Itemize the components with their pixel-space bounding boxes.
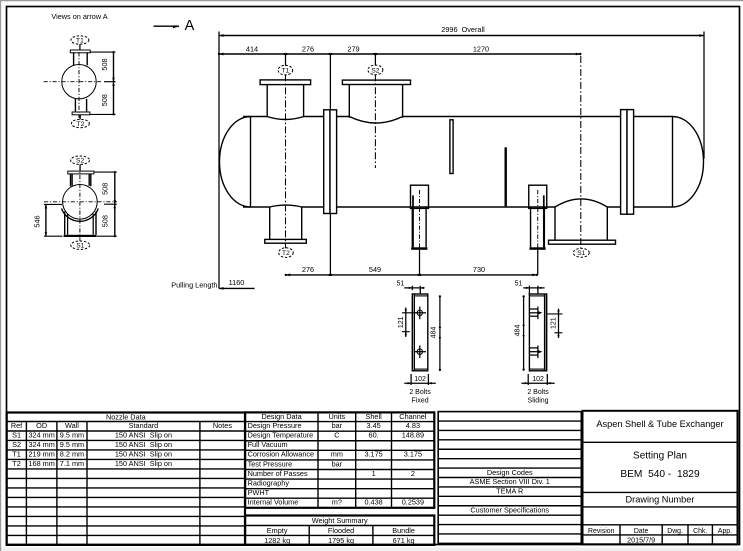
svg-text:ASME Section VIII Div. 1: ASME Section VIII Div. 1 [470, 477, 550, 486]
svg-text:276: 276 [302, 265, 314, 274]
svg-text:T2: T2 [12, 459, 21, 468]
svg-text:150 ANSI Slip on: 150 ANSI Slip on [115, 440, 172, 449]
svg-text:324 mm: 324 mm [28, 440, 54, 449]
svg-text:Date: Date [634, 528, 649, 535]
svg-text:Units: Units [329, 412, 346, 421]
svg-text:Sliding: Sliding [528, 398, 549, 405]
svg-text:2 Bolts: 2 Bolts [409, 389, 431, 396]
svg-text:484: 484 [514, 325, 521, 337]
svg-text:Radiography: Radiography [248, 478, 290, 487]
svg-text:276: 276 [302, 44, 314, 53]
svg-text:S2: S2 [12, 440, 21, 449]
svg-text:bar: bar [332, 459, 343, 468]
svg-text:150 ANSI Slip on: 150 ANSI Slip on [115, 430, 172, 439]
svg-text:9.5 mm: 9.5 mm [60, 430, 84, 439]
svg-text:Nozzle Data: Nozzle Data [106, 412, 147, 421]
svg-text:Design Pressure: Design Pressure [248, 421, 302, 430]
svg-text:2 Bolts: 2 Bolts [527, 389, 549, 396]
svg-text:S2: S2 [76, 158, 84, 165]
svg-text:1282 kg: 1282 kg [264, 536, 290, 545]
svg-text:Views on arrow A: Views on arrow A [51, 12, 107, 21]
svg-text:Number of Passes: Number of Passes [248, 469, 308, 478]
svg-text:3.45: 3.45 [366, 421, 380, 430]
svg-text:2015/7/9: 2015/7/9 [627, 535, 655, 544]
svg-text:Chk.: Chk. [693, 528, 707, 535]
svg-text:T1: T1 [12, 449, 21, 458]
svg-text:546: 546 [33, 215, 42, 227]
svg-text:121: 121 [398, 316, 405, 328]
svg-text:Shell: Shell [365, 412, 382, 421]
svg-text:App.: App. [718, 528, 732, 535]
svg-text:Wall: Wall [65, 421, 79, 430]
svg-text:Flooded: Flooded [328, 526, 354, 535]
svg-text:Corrosion Allowance: Corrosion Allowance [248, 450, 315, 459]
svg-text:OD: OD [36, 421, 47, 430]
svg-text:549: 549 [369, 265, 381, 274]
svg-text:Fixed: Fixed [411, 398, 428, 405]
svg-text:148.89: 148.89 [402, 431, 424, 440]
svg-text:1160: 1160 [229, 278, 245, 287]
svg-text:150 ANSI Slip on: 150 ANSI Slip on [115, 449, 172, 458]
svg-text:1: 1 [372, 469, 376, 478]
svg-text:Revision: Revision [588, 528, 615, 535]
svg-text:TEMA R: TEMA R [496, 487, 523, 496]
svg-text:4.83: 4.83 [406, 421, 420, 430]
svg-text:508: 508 [100, 183, 109, 195]
svg-text:T2: T2 [77, 121, 85, 128]
svg-text:219 mm: 219 mm [28, 449, 54, 458]
svg-text:PWHT: PWHT [248, 488, 270, 497]
svg-text:0.2539: 0.2539 [402, 498, 424, 507]
svg-text:T2: T2 [282, 250, 290, 257]
svg-text:Drawing Number: Drawing Number [626, 495, 695, 505]
svg-text:508: 508 [100, 215, 109, 227]
svg-text:Weight Summary: Weight Summary [312, 516, 368, 525]
svg-text:484: 484 [430, 327, 437, 339]
svg-text:7.1 mm: 7.1 mm [60, 459, 84, 468]
svg-text:C: C [334, 431, 339, 440]
svg-text:Dwg.: Dwg. [667, 528, 683, 535]
svg-text:Customer Specifications: Customer Specifications [470, 505, 549, 514]
svg-text:A: A [185, 18, 195, 34]
svg-text:T1: T1 [282, 68, 290, 75]
svg-text:Full Vacuum: Full Vacuum [248, 440, 288, 449]
svg-text:Standard: Standard [129, 421, 159, 430]
svg-text:508: 508 [100, 58, 109, 70]
svg-text:324 mm: 324 mm [28, 430, 54, 439]
svg-text:3.175: 3.175 [404, 450, 422, 459]
svg-text:102: 102 [532, 376, 544, 383]
svg-text:S1: S1 [76, 243, 84, 250]
svg-text:Notes: Notes [213, 421, 232, 430]
svg-text:S1: S1 [12, 430, 21, 439]
svg-text:730: 730 [473, 265, 485, 274]
svg-text:Design Data: Design Data [261, 412, 302, 421]
svg-text:8.2 mm: 8.2 mm [60, 449, 84, 458]
svg-text:3.175: 3.175 [364, 450, 382, 459]
svg-text:Pulling Length: Pulling Length [171, 281, 217, 290]
svg-text:bar: bar [332, 421, 343, 430]
svg-text:Bundle: Bundle [392, 526, 415, 535]
svg-text:102: 102 [414, 376, 426, 383]
svg-text:BEM 540 - 1829: BEM 540 - 1829 [620, 469, 700, 480]
svg-text:51: 51 [515, 280, 523, 287]
svg-text:2: 2 [411, 469, 415, 478]
svg-text:Channel: Channel [399, 412, 427, 421]
svg-text:121: 121 [551, 317, 558, 329]
svg-text:60.: 60. [369, 431, 379, 440]
svg-text:S2: S2 [371, 67, 379, 74]
svg-text:51: 51 [397, 281, 405, 288]
svg-text:Design Codes: Design Codes [487, 468, 533, 477]
svg-text:168 mm: 168 mm [28, 459, 54, 468]
svg-text:508: 508 [100, 94, 109, 106]
svg-text:Empty: Empty [267, 526, 288, 535]
svg-text:Aspen Shell & Tube Exchanger: Aspen Shell & Tube Exchanger [596, 419, 723, 429]
svg-text:2996 Overall: 2996 Overall [441, 25, 485, 34]
svg-text:9.5 mm: 9.5 mm [60, 440, 84, 449]
svg-text:0.438: 0.438 [364, 498, 382, 507]
svg-text:Setting Plan: Setting Plan [633, 451, 687, 462]
svg-text:Design Temperature: Design Temperature [248, 431, 314, 440]
svg-text:Internal Volume: Internal Volume [248, 498, 299, 507]
svg-text:Test Pressure: Test Pressure [248, 459, 293, 468]
svg-text:671 kg: 671 kg [393, 536, 415, 545]
svg-text:S1: S1 [577, 250, 585, 257]
svg-text:Ref: Ref [11, 421, 23, 430]
svg-text:1270: 1270 [473, 44, 489, 53]
svg-text:T1: T1 [76, 37, 84, 44]
svg-text:414: 414 [246, 44, 258, 53]
svg-text:150 ANSI Slip on: 150 ANSI Slip on [115, 459, 172, 468]
svg-text:mm: mm [331, 450, 343, 459]
svg-text:1795 kg: 1795 kg [328, 536, 354, 545]
svg-text:279: 279 [347, 44, 359, 53]
svg-text:m?: m? [332, 498, 342, 507]
